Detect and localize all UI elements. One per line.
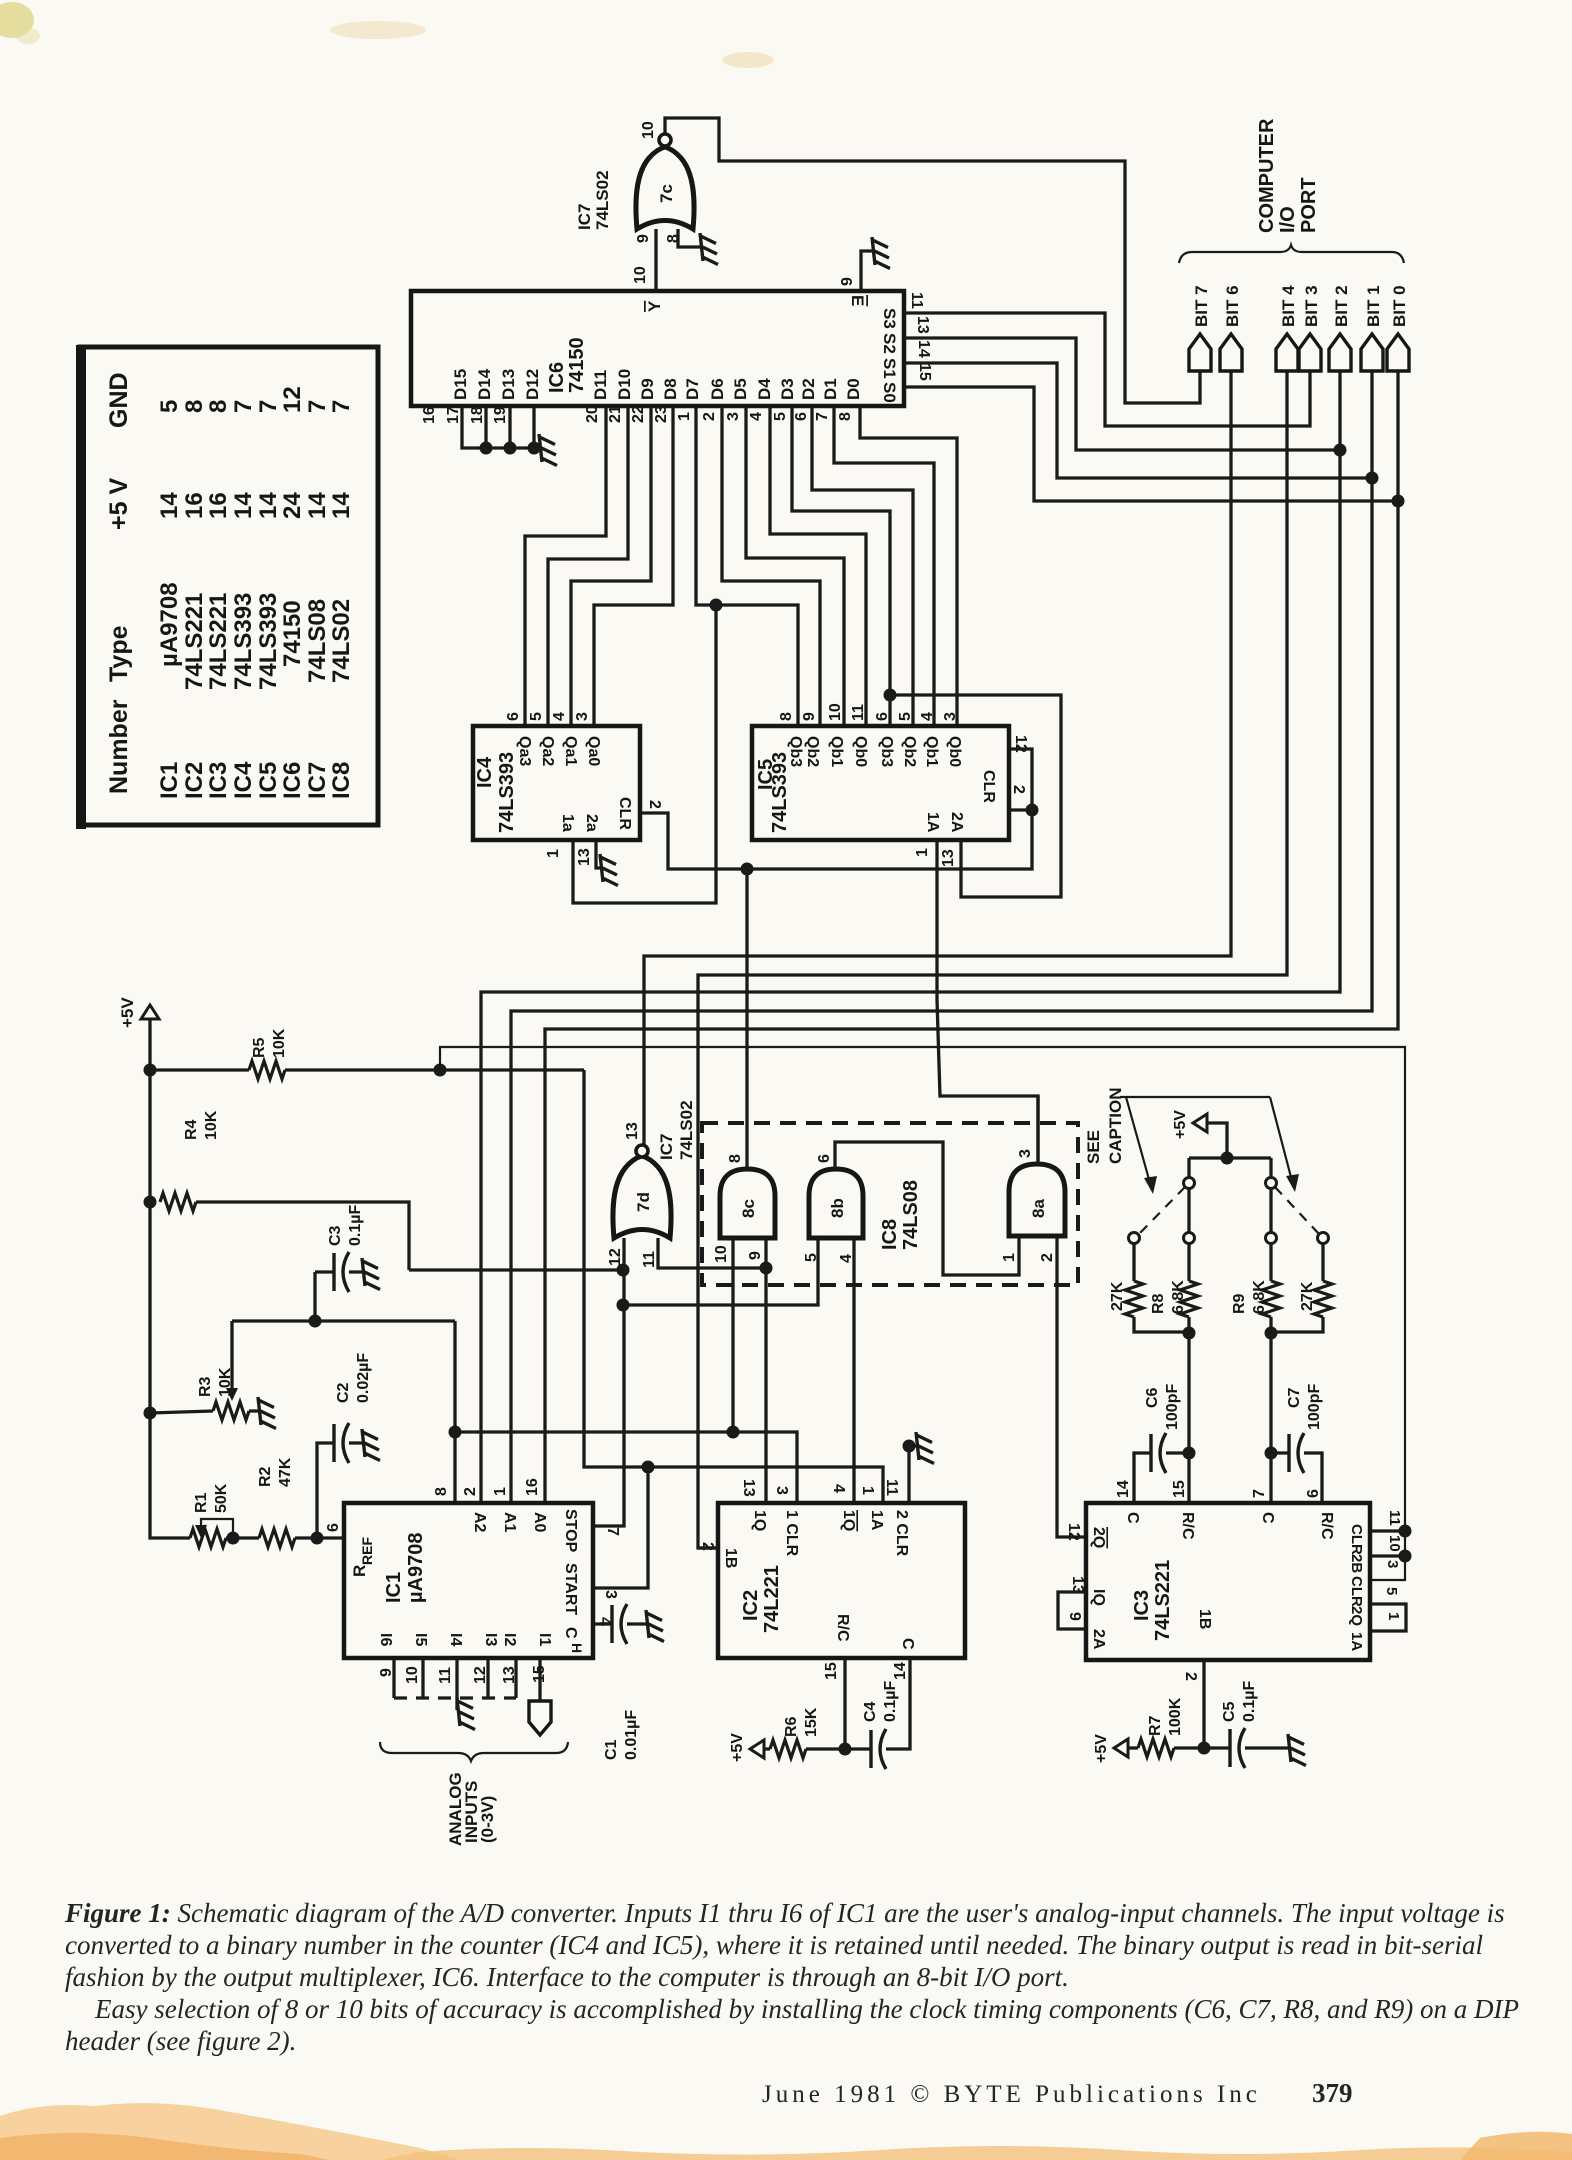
svg-text:STOP: STOP (562, 1509, 579, 1553)
7c output wire to BIT7 (665, 118, 1200, 403)
svg-text:74LS393: 74LS393 (255, 593, 282, 690)
svg-text:IC2: IC2 (740, 1590, 762, 1621)
svg-text:7c: 7c (657, 184, 676, 203)
svg-text:1: 1 (676, 412, 693, 421)
svg-text:Qb0: Qb0 (946, 736, 963, 767)
wire S2 to BIT2 (904, 338, 1340, 450)
svg-text:2: 2 (701, 412, 718, 421)
7c output bubble (659, 134, 671, 146)
svg-text:A0: A0 (531, 1512, 548, 1533)
svg-text:IC7: IC7 (304, 762, 331, 799)
svg-text:7d: 7d (634, 1192, 653, 1212)
svg-text:3: 3 (574, 712, 591, 721)
svg-text:12: 12 (607, 1248, 624, 1266)
svg-text:R5: R5 (251, 1037, 268, 1058)
svg-text:IC2: IC2 (181, 762, 208, 799)
svg-text:14: 14 (915, 340, 932, 358)
AND gate 8a of IC8 (1009, 1164, 1065, 1236)
node 1CLR riser junction (449, 1426, 462, 1439)
svg-text:C: C (562, 1627, 579, 1639)
svg-text:13: 13 (624, 1122, 641, 1140)
svg-text:17: 17 (445, 406, 462, 424)
svg-text:BIT 1: BIT 1 (1364, 285, 1383, 327)
IC3 74LS221 box (1086, 1503, 1370, 1660)
capacitor C4 0.1uF (845, 1658, 910, 1749)
parts table thick left edge (76, 345, 86, 829)
svg-text:+5V: +5V (1093, 1734, 1110, 1763)
node R6/C4 junction (839, 1743, 852, 1756)
svg-text:E: E (848, 295, 867, 306)
svg-text:379: 379 (1312, 2078, 1353, 2108)
svg-text:2: 2 (1010, 785, 1027, 794)
resistor R6 15K (764, 1747, 770, 1750)
svg-text:D12: D12 (523, 369, 542, 400)
svg-text:1: 1 (914, 848, 931, 857)
svg-text:0.1µF: 0.1µF (882, 1681, 899, 1722)
svg-text:2: 2 (1182, 1672, 1199, 1681)
wire R4 node to 7d pin 12 and IC1 pin 7 (409, 1238, 624, 1526)
svg-text:(0-3V): (0-3V) (478, 1796, 497, 1843)
svg-text:4: 4 (830, 1484, 847, 1493)
svg-text:1Q: 1Q (751, 1510, 768, 1531)
IC6 74150 multiplexer box (411, 291, 904, 406)
svg-text:15: 15 (1171, 1480, 1188, 1498)
svg-text:6: 6 (505, 712, 522, 721)
svg-text:IC5: IC5 (255, 762, 282, 799)
svg-text:Qa2: Qa2 (539, 736, 556, 766)
svg-text:16: 16 (205, 492, 232, 519)
svg-text:C1: C1 (603, 1739, 620, 1760)
wire CLR node down to gate 8c pin 8 (745, 869, 748, 1169)
svg-text:2A: 2A (1090, 1629, 1107, 1650)
svg-text:14: 14 (156, 492, 183, 519)
svg-text:14: 14 (1115, 1480, 1132, 1498)
svg-text:8: 8 (837, 412, 854, 421)
IC1 uA9708 box (344, 1503, 593, 1658)
svg-text:4: 4 (919, 712, 936, 721)
svg-text:9: 9 (801, 712, 818, 721)
svg-text:74LS08: 74LS08 (304, 599, 331, 683)
svg-text:Qa0: Qa0 (585, 736, 602, 766)
svg-text:47K: 47K (277, 1457, 294, 1487)
svg-text:Qa3: Qa3 (516, 736, 533, 766)
svg-text:74LS02: 74LS02 (677, 1100, 696, 1160)
IC1 analog input stubs (394, 1658, 516, 1698)
svg-text:R/C: R/C (1179, 1512, 1196, 1540)
parts table box (80, 347, 378, 825)
svg-text:6: 6 (325, 1523, 342, 1532)
svg-text:3: 3 (773, 1486, 790, 1495)
svg-text:BIT 3: BIT 3 (1302, 285, 1321, 327)
node 8c pin 9 junction (760, 1262, 773, 1275)
svg-text:BIT 7: BIT 7 (1192, 285, 1211, 327)
svg-text:12: 12 (279, 386, 306, 413)
svg-text:10K: 10K (217, 1367, 234, 1397)
wire 8a pin 2 down to IC3 pin 12 (1057, 1236, 1086, 1537)
svg-text:13: 13 (576, 848, 593, 866)
svg-text:15: 15 (823, 1662, 840, 1680)
wire to DIP header pins (1189, 1158, 1271, 1177)
svg-text:C3: C3 (327, 1225, 344, 1246)
resistor R5 10K (150, 1068, 249, 1071)
svg-text:2: 2 (462, 1487, 479, 1496)
svg-text:13: 13 (914, 316, 931, 334)
svg-text:4: 4 (551, 712, 568, 721)
IC5 74LS393 counter box (752, 726, 1009, 840)
IC2 pin 2 wire from BIT4 riser (698, 1546, 718, 1549)
NOR gate 7d of IC7 (613, 1156, 671, 1238)
wire D3 to IC5 pin 6 (792, 407, 890, 726)
svg-text:11: 11 (908, 292, 925, 309)
wire 8c pin 10 down to 1CLR line (731, 1238, 734, 1432)
svg-text:21: 21 (607, 405, 624, 423)
svg-text:8: 8 (778, 712, 795, 721)
svg-text:D6: D6 (708, 378, 727, 400)
svg-text:0.1µF: 0.1µF (1241, 1681, 1258, 1722)
svg-text:2Q: 2Q (1348, 1606, 1365, 1626)
svg-text:27K: 27K (1299, 1281, 1316, 1311)
svg-text:11: 11 (1386, 1510, 1403, 1526)
svg-text:Qb0: Qb0 (852, 736, 869, 767)
svg-text:9: 9 (747, 1251, 764, 1260)
connector arrow BIT4 (1276, 334, 1298, 371)
svg-text:5: 5 (897, 712, 914, 721)
+5V supply for R6 (750, 1740, 764, 1758)
svg-text:8: 8 (181, 400, 208, 413)
svg-text:19: 19 (492, 406, 509, 424)
svg-text:+5V: +5V (118, 997, 137, 1028)
node S2/BIT2 junction (1334, 444, 1347, 457)
ground for IC6 pins 17-19 (539, 434, 557, 466)
svg-text:3: 3 (602, 1590, 619, 1599)
wire R3 wiper to IC1 pin 8 riser (232, 1321, 455, 1394)
svg-text:Type: Type (105, 625, 133, 682)
svg-text:D7: D7 (683, 378, 702, 400)
svg-text:BIT 0: BIT 0 (1390, 285, 1409, 327)
capacitor C7 100pF (1265, 1447, 1278, 1460)
7c input 9 wire from IC6 pin 10 (654, 229, 657, 291)
svg-text:10K: 10K (203, 1110, 220, 1140)
svg-text:Qb2: Qb2 (901, 736, 918, 767)
node S1/BIT1 junction (1366, 472, 1379, 485)
svg-text:74LS08: 74LS08 (900, 1180, 922, 1250)
svg-text:8: 8 (433, 1487, 450, 1496)
svg-text:2a: 2a (583, 814, 600, 832)
+5V supply for clock resistors (1193, 1114, 1207, 1132)
IC6 pin 9 enable stub to ground (861, 251, 872, 291)
resistor R1 50K potentiometer (190, 1529, 226, 1547)
svg-text:8b: 8b (828, 1198, 847, 1218)
wire S0 to BIT0 (904, 387, 1398, 501)
svg-text:D2: D2 (799, 378, 818, 400)
svg-text:I6: I6 (377, 1633, 394, 1646)
svg-text:14: 14 (255, 492, 282, 519)
svg-text:D5: D5 (731, 378, 750, 400)
svg-text:7: 7 (304, 400, 331, 413)
svg-text:74LS02: 74LS02 (593, 170, 612, 230)
svg-text:IC7: IC7 (575, 204, 594, 230)
IC2 74L221 box (718, 1503, 965, 1658)
svg-text:µA9708: µA9708 (405, 1533, 427, 1603)
svg-text:Y: Y (645, 300, 664, 312)
wire BIT4 down to IC2 pin 2 (698, 371, 1287, 1548)
svg-text:6.8K: 6.8K (1170, 1280, 1187, 1314)
svg-text:1A: 1A (924, 812, 941, 833)
svg-text:Qa1: Qa1 (562, 736, 579, 766)
svg-text:header (see figure 2).: header (see figure 2). (65, 2026, 296, 2056)
node IC1 pin 3 tap (642, 1461, 655, 1474)
svg-text:6: 6 (874, 712, 891, 721)
svg-text:S3: S3 (880, 308, 899, 329)
svg-text:24: 24 (279, 492, 306, 519)
svg-text:START: START (562, 1563, 579, 1615)
resistor R7 100K (1128, 1746, 1138, 1749)
svg-text:7: 7 (255, 400, 282, 413)
wire 8c pin 9 lead (764, 1238, 767, 1268)
svg-text:3: 3 (1017, 1149, 1034, 1158)
svg-text:22: 22 (630, 405, 647, 423)
connector arrow analog input I1 (529, 1701, 551, 1735)
svg-text:14: 14 (304, 492, 331, 519)
node +5V clock feed (1221, 1152, 1234, 1165)
IC5 CLR pin 2 wire (1009, 808, 1032, 811)
wire IC5 pin 13 (2A) to D3 node (890, 695, 1061, 897)
svg-text:20: 20 (584, 405, 601, 423)
svg-text:I1: I1 (536, 1633, 553, 1646)
svg-text:R4: R4 (183, 1119, 200, 1140)
svg-text:10: 10 (404, 1666, 421, 1684)
IC4 74LS393 counter box (473, 726, 640, 840)
svg-text:COMPUTER: COMPUTER (1256, 118, 1278, 233)
svg-text:9: 9 (839, 277, 856, 286)
svg-text:R3: R3 (197, 1376, 214, 1397)
svg-text:11: 11 (641, 1251, 658, 1268)
wire BIT2 down to IC1 pin 2 (481, 371, 1340, 1503)
svg-text:C: C (1124, 1512, 1141, 1524)
svg-text:R/C: R/C (1318, 1512, 1335, 1540)
+5V supply for R7 (1114, 1739, 1128, 1757)
wire BIT6 down to gate 7d output (644, 371, 1231, 1146)
svg-text:Qb1: Qb1 (828, 736, 845, 767)
svg-text:13: 13 (740, 1479, 757, 1497)
svg-text:+5V: +5V (729, 1733, 746, 1762)
svg-text:IC8: IC8 (879, 1219, 901, 1250)
svg-text:D9: D9 (638, 378, 657, 400)
IC3 pins 13 and 9 tie bracket (1058, 1592, 1086, 1629)
wire +5V rail down left side (150, 1070, 190, 1538)
wire IC1 pin 8 riser (453, 1321, 456, 1503)
svg-text:CLR: CLR (1348, 1524, 1365, 1555)
svg-text:74LS02: 74LS02 (328, 599, 355, 683)
svg-text:0.02µF: 0.02µF (355, 1353, 372, 1403)
svg-text:11: 11 (883, 1479, 900, 1496)
wire D7 to IC5 pin 8 (696, 407, 798, 726)
AND gate 8b of IC8 (809, 1169, 863, 1238)
dashed jumper right (1275, 1187, 1319, 1234)
wire R5 node up and right to IC3 clear pins (440, 1047, 1405, 1580)
svg-text:7: 7 (1251, 1489, 1268, 1498)
SEE CAPTION pointer lines (1120, 1097, 1292, 1183)
svg-text:1: 1 (859, 1486, 876, 1495)
svg-text:IC4: IC4 (230, 761, 257, 799)
svg-text:D0: D0 (844, 378, 863, 400)
svg-text:0.1µF: 0.1µF (347, 1205, 364, 1246)
svg-text:14: 14 (892, 1662, 909, 1680)
wire D11 to IC4 Qa3 (525, 407, 606, 726)
wire node to 8b pin 5 (623, 1238, 818, 1305)
node D7 branch (710, 599, 723, 612)
svg-text:50K: 50K (213, 1483, 230, 1513)
svg-text:15: 15 (916, 363, 933, 381)
svg-text:IC8: IC8 (328, 762, 355, 799)
IC1 pin 15 lead to input connector (538, 1658, 541, 1701)
svg-text:C5: C5 (1221, 1701, 1238, 1722)
svg-text:D8: D8 (661, 378, 680, 400)
svg-text:µA9708: µA9708 (156, 582, 183, 667)
capacitor C5 0.1uF (1204, 1746, 1288, 1749)
wire D4 to IC5 pin 11 (770, 407, 866, 726)
svg-text:100pF: 100pF (1164, 1384, 1181, 1430)
svg-text:REF: REF (359, 1537, 375, 1565)
capacitor C6 100pF (1183, 1447, 1196, 1460)
svg-text:IC4: IC4 (474, 756, 496, 788)
node C2 junction (311, 1532, 324, 1545)
svg-text:11: 11 (437, 1667, 454, 1684)
svg-text:PORT: PORT (1298, 177, 1320, 233)
node 7d pin 12 junction (617, 1264, 630, 1277)
svg-text:6: 6 (816, 1154, 833, 1163)
svg-text:9: 9 (1066, 1612, 1083, 1621)
svg-text:7: 7 (328, 400, 355, 413)
svg-text:8a: 8a (1029, 1199, 1048, 1218)
NOR gate 7c of IC7 (636, 147, 694, 229)
svg-text:D15: D15 (451, 369, 470, 400)
svg-text:BIT 4: BIT 4 (1279, 285, 1298, 327)
dashed jumper left (1139, 1187, 1185, 1234)
svg-text:SEE: SEE (1084, 1130, 1103, 1164)
wire BIT1 down to IC1 pin 1 (511, 371, 1372, 1503)
IC3 pins 5,1 tie bracket (1370, 1604, 1406, 1631)
svg-text:I/O: I/O (1277, 206, 1299, 233)
7c input 8 wire to ground (678, 229, 700, 247)
svg-text:Number: Number (105, 699, 133, 794)
svg-text:7: 7 (604, 1527, 621, 1536)
svg-text:74150: 74150 (566, 337, 588, 393)
svg-text:4: 4 (748, 412, 765, 421)
+5V supply symbol top left (141, 1005, 159, 1019)
resistor 27K right (1321, 1244, 1324, 1281)
R3 wiper arrowhead (226, 1388, 238, 1401)
svg-text:fashion by the output multiple: fashion by the output multiplexer, IC6. … (65, 1962, 1069, 1992)
svg-text:5: 5 (772, 412, 789, 421)
node 8b pin 5 branch (617, 1299, 630, 1312)
svg-text:11: 11 (850, 704, 867, 721)
wire D0 to IC5 pin 3 (860, 407, 957, 726)
svg-text:Figure 1: Schematic diagram of: Figure 1: Schematic diagram of the A/D c… (64, 1898, 1505, 1928)
svg-text:1: 1 (492, 1487, 509, 1496)
svg-text:10: 10 (640, 121, 657, 139)
svg-text:D13: D13 (499, 369, 518, 400)
svg-text:0.01µF: 0.01µF (623, 1710, 640, 1760)
svg-text:Qb3: Qb3 (878, 736, 895, 767)
svg-text:C7: C7 (1286, 1387, 1303, 1408)
svg-text:D4: D4 (755, 378, 774, 400)
svg-text:C4: C4 (862, 1701, 879, 1722)
svg-text:1: 1 (1001, 1253, 1018, 1262)
svg-text:74LS221: 74LS221 (205, 593, 232, 690)
svg-text:CAPTION: CAPTION (1106, 1088, 1125, 1165)
svg-text:3: 3 (725, 412, 742, 421)
svg-text:IC6: IC6 (279, 762, 306, 799)
svg-text:8: 8 (727, 1154, 744, 1163)
svg-text:12: 12 (1065, 1523, 1082, 1541)
svg-text:R8: R8 (1150, 1293, 1167, 1314)
svg-text:1B: 1B (722, 1548, 739, 1568)
wire D2 to IC5 pin 5 (812, 407, 913, 726)
svg-text:8c: 8c (739, 1199, 758, 1218)
IC3 clear pins 11,10 ties to R5 net (1370, 1531, 1405, 1556)
svg-text:16: 16 (524, 1478, 541, 1496)
resistor R4 10K (144, 1196, 157, 1209)
brace over computer I/O port arrows (1179, 245, 1404, 263)
wire +5V stem (148, 1019, 151, 1070)
IC3 pin 2 lead to R7/C5 (1202, 1660, 1205, 1748)
svg-text:I3: I3 (482, 1633, 499, 1646)
svg-text:23: 23 (653, 405, 670, 423)
node R5 output (434, 1064, 447, 1077)
capacitor C2 0.02uF (317, 1443, 362, 1538)
svg-text:10: 10 (827, 703, 844, 721)
svg-text:A1: A1 (501, 1512, 518, 1533)
svg-text:15K: 15K (803, 1707, 820, 1737)
svg-text:7: 7 (230, 400, 257, 413)
svg-text:14: 14 (230, 492, 257, 519)
wire BIT0 down to IC1 pin 16 (545, 371, 1398, 1503)
svg-text:1 CLR: 1 CLR (783, 1510, 800, 1557)
svg-text:74L221: 74L221 (761, 1565, 783, 1633)
IC4 pin 13 ground stub (596, 840, 600, 868)
svg-text:C6: C6 (1144, 1387, 1161, 1408)
wire S1 to BIT1 (904, 363, 1372, 478)
resistor 27K left (1132, 1244, 1135, 1281)
svg-text:6: 6 (1305, 1489, 1322, 1498)
svg-text:5: 5 (156, 400, 183, 413)
svg-text:1A: 1A (1348, 1632, 1365, 1651)
svg-text:D14: D14 (475, 368, 494, 400)
svg-text:74LS221: 74LS221 (1152, 1560, 1174, 1641)
svg-text:2A: 2A (948, 812, 965, 833)
DIP header pin circles upper (1184, 1178, 1195, 1189)
wire R5 branch to IC2 pin 1 (1A) (584, 1070, 883, 1503)
svg-text:converted to a binary number i: converted to a binary number in the coun… (65, 1930, 1483, 1960)
ground stub for analog input bus (455, 1698, 458, 1710)
svg-text:8: 8 (205, 400, 232, 413)
wire IC5 pin 1 (1A) to gate 8a output (937, 840, 1038, 1164)
node +5V rail top (144, 1064, 157, 1077)
svg-text:5: 5 (528, 712, 545, 721)
svg-text:IC3: IC3 (1131, 1590, 1153, 1621)
svg-text:R1: R1 (193, 1492, 210, 1513)
resistor R8 6.8K (1187, 1189, 1190, 1281)
wire CLR bus to IC4 CLR (642, 810, 1032, 869)
svg-text:13: 13 (940, 849, 957, 867)
IC6 pins 16-19 ground stubs (462, 406, 539, 448)
svg-text:R: R (350, 1565, 369, 1577)
svg-text:Qb1: Qb1 (923, 736, 940, 767)
wire D10 to IC4 Qa2 (548, 407, 628, 726)
DIP header pin circles lower (1184, 1233, 1195, 1244)
resistor R9 6.8K (1269, 1189, 1272, 1281)
